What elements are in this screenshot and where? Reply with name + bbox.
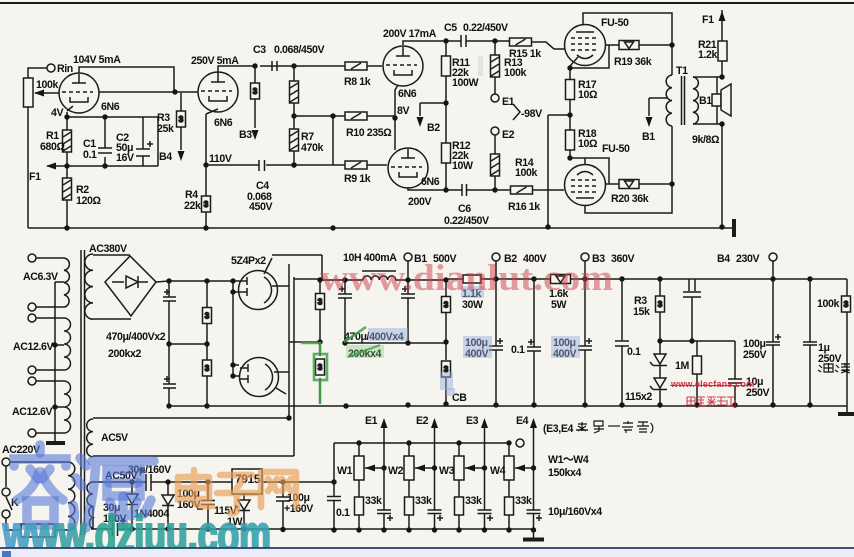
svg-text:T1: T1 xyxy=(676,65,688,77)
svg-text:33k: 33k xyxy=(415,495,432,507)
svg-text:0.1: 0.1 xyxy=(627,346,641,358)
svg-text:E1: E1 xyxy=(365,415,378,427)
svg-text:F1: F1 xyxy=(29,171,41,183)
svg-text:E4: E4 xyxy=(516,415,529,427)
svg-text:AC6.3V: AC6.3V xyxy=(23,271,58,283)
svg-text:W4: W4 xyxy=(490,465,506,477)
svg-text:E3: E3 xyxy=(466,415,479,427)
svg-text:450V: 450V xyxy=(249,201,272,213)
svg-text:FU-50: FU-50 xyxy=(602,143,630,155)
svg-text:100k: 100k xyxy=(504,67,526,79)
svg-text:100k: 100k xyxy=(36,79,58,91)
svg-text:E1: E1 xyxy=(502,96,515,108)
svg-text:200kx2: 200kx2 xyxy=(108,348,141,360)
svg-text:470μ/400Vx2: 470μ/400Vx2 xyxy=(106,331,166,343)
svg-text:B3: B3 xyxy=(239,129,252,141)
svg-text:www.dianlut.com: www.dianlut.com xyxy=(320,258,613,299)
svg-text:150kx4: 150kx4 xyxy=(548,467,581,479)
svg-text:AC12.6V: AC12.6V xyxy=(13,341,54,353)
svg-text:B2: B2 xyxy=(427,122,440,134)
svg-text:W2: W2 xyxy=(388,465,404,477)
svg-text:AC380V: AC380V xyxy=(89,243,127,255)
svg-text:0.1: 0.1 xyxy=(336,507,350,519)
svg-text:R10 235Ω: R10 235Ω xyxy=(346,127,392,139)
svg-text:B1: B1 xyxy=(699,95,712,107)
svg-text:10μ/160Vx4: 10μ/160Vx4 xyxy=(548,506,602,518)
svg-text:33k: 33k xyxy=(365,495,382,507)
svg-text:16V: 16V xyxy=(116,152,134,164)
svg-text:Rin: Rin xyxy=(57,63,73,75)
svg-text:）: ） xyxy=(650,422,660,435)
svg-text:33k: 33k xyxy=(465,495,482,507)
svg-text:W1: W1 xyxy=(337,465,353,477)
svg-text:100k: 100k xyxy=(515,167,537,179)
svg-text:C6: C6 xyxy=(458,203,471,215)
svg-text:E2: E2 xyxy=(502,129,515,141)
svg-text:100W: 100W xyxy=(452,77,478,89)
svg-text:6N6: 6N6 xyxy=(214,117,233,129)
svg-text:250V: 250V xyxy=(743,349,766,361)
svg-text:200V 17mA: 200V 17mA xyxy=(383,28,437,40)
svg-text:30W: 30W xyxy=(462,299,483,311)
svg-text:0.068/450V: 0.068/450V xyxy=(274,44,325,56)
svg-text:250V: 250V xyxy=(818,353,841,365)
svg-text:10W: 10W xyxy=(452,160,473,172)
svg-text:0.1: 0.1 xyxy=(83,149,97,161)
svg-text:AC12.6V: AC12.6V xyxy=(12,406,53,418)
svg-text:-98V: -98V xyxy=(521,108,542,120)
svg-text:470k: 470k xyxy=(301,142,323,154)
svg-text:R16 1k: R16 1k xyxy=(508,201,540,213)
svg-text:W1～W4: W1～W4 xyxy=(548,454,589,466)
svg-text:R15 1k: R15 1k xyxy=(509,48,541,60)
svg-text:33k: 33k xyxy=(515,495,532,507)
svg-text:R8 1k: R8 1k xyxy=(344,76,371,88)
svg-text:230V: 230V xyxy=(736,253,759,265)
svg-text:104V 5mA: 104V 5mA xyxy=(73,54,121,66)
svg-text:680Ω: 680Ω xyxy=(40,141,65,153)
svg-text:1M: 1M xyxy=(675,360,689,372)
svg-text:F1: F1 xyxy=(702,14,714,26)
svg-text:5Z4Px2: 5Z4Px2 xyxy=(231,255,266,267)
svg-text:1.2k: 1.2k xyxy=(698,49,718,61)
svg-text:4V: 4V xyxy=(51,107,63,119)
svg-text:6N6: 6N6 xyxy=(398,88,417,100)
svg-text:5W: 5W xyxy=(551,299,566,311)
svg-text:6N6: 6N6 xyxy=(101,101,120,113)
svg-text:B1: B1 xyxy=(642,131,655,143)
svg-text:0.1: 0.1 xyxy=(511,344,525,356)
svg-text:115x2: 115x2 xyxy=(625,391,652,403)
svg-text:10Ω: 10Ω xyxy=(578,89,598,101)
svg-text:15k: 15k xyxy=(633,306,650,318)
svg-text:E2: E2 xyxy=(416,415,429,427)
svg-text:360V: 360V xyxy=(611,253,634,265)
svg-text:C3: C3 xyxy=(253,44,266,56)
svg-text:25k: 25k xyxy=(157,123,174,135)
svg-text:R19 36k: R19 36k xyxy=(614,56,652,68)
svg-text:B4: B4 xyxy=(159,151,172,163)
svg-text:22k: 22k xyxy=(184,200,201,212)
svg-text:W3: W3 xyxy=(439,465,455,477)
svg-text:R9 1k: R9 1k xyxy=(344,173,371,185)
svg-text:FU-50: FU-50 xyxy=(601,17,629,29)
svg-text:(E3,E4: (E3,E4 xyxy=(543,423,573,435)
svg-text:9k/8Ω: 9k/8Ω xyxy=(692,134,720,146)
svg-text:110V: 110V xyxy=(209,153,232,165)
svg-text:0.22/450V: 0.22/450V xyxy=(444,215,489,227)
svg-text:8V: 8V xyxy=(397,105,409,117)
svg-text:B4: B4 xyxy=(717,253,730,265)
svg-text:AC220V: AC220V xyxy=(2,444,40,456)
svg-text:100k: 100k xyxy=(817,298,839,310)
svg-text:0.22/450V: 0.22/450V xyxy=(463,22,508,34)
svg-text:AC5V: AC5V xyxy=(101,432,128,444)
svg-text:10Ω: 10Ω xyxy=(578,138,598,150)
svg-text:200V: 200V xyxy=(408,196,431,208)
svg-text:R20 36k: R20 36k xyxy=(611,193,649,205)
svg-text:www.elecfans.com: www.elecfans.com xyxy=(670,379,754,389)
svg-text:250V 5mA: 250V 5mA xyxy=(191,55,239,67)
svg-text:6N6: 6N6 xyxy=(421,176,440,188)
svg-text:120Ω: 120Ω xyxy=(76,195,101,207)
svg-text:C5: C5 xyxy=(444,22,457,34)
